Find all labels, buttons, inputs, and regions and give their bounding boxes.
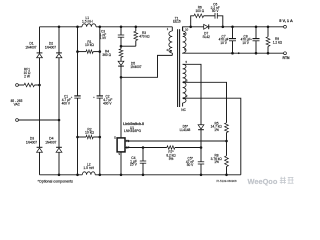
diode D6* LL4148	[180, 125, 204, 162]
resistor R9 1.2 kOhm	[266, 26, 283, 55]
wire FB winding tap 2 to bottom rail	[183, 97, 241, 175]
wire clamp join C3/R3	[120, 45, 136, 48]
svg-text:100 Ω: 100 Ω	[196, 9, 205, 13]
wire secondary pin 10 to output rail	[183, 26, 205, 32]
capacitor C3 1 nF 1 kV	[100, 27, 124, 46]
svg-text:RTN: RTN	[283, 56, 291, 60]
wire AC N to D2/D4 column	[18, 119, 60, 122]
svg-text:10 V: 10 V	[220, 41, 227, 45]
svg-text:LL4148: LL4148	[180, 128, 191, 132]
resistor R4 360 Ohm	[102, 46, 122, 57]
svg-text:2 W: 2 W	[24, 75, 30, 79]
node junction dots on bottom rail	[58, 174, 228, 177]
svg-text:NC: NC	[181, 108, 186, 112]
snubber resistor R6 100 Ohm	[191, 6, 215, 27]
diode D4 1N4007	[45, 120, 62, 175]
watermark WeeQoo	[248, 177, 294, 186]
label 85-265 VAC	[11, 99, 23, 107]
resistor R8 3.76 kOhm 1%	[211, 153, 229, 174]
svg-text:50 V: 50 V	[212, 9, 219, 13]
svg-text:1.2 kΩ: 1.2 kΩ	[273, 40, 283, 44]
node output terminal RTN	[283, 52, 291, 60]
svg-text:1N4007: 1N4007	[130, 65, 141, 69]
node AC input terminal L	[16, 84, 19, 87]
wire FB winding tap 3 to R5	[183, 81, 227, 123]
capacitor C8 470 uF 10 V	[241, 26, 260, 55]
wire primary return bottom rail	[40, 174, 241, 176]
wire drain to primary pin 4	[121, 55, 172, 77]
svg-text:400 V: 400 V	[62, 102, 71, 106]
transformer T1 EF16 core	[173, 16, 181, 107]
node junction dots on B+ rail	[58, 26, 137, 29]
capacitor C1 4.7 uF 400 V	[62, 27, 81, 175]
op-amp U1 LNK616PG LinkSwitch-II	[114, 122, 144, 156]
diode D3 1N4007	[26, 85, 42, 175]
resistor R7* 8.2 kOhm 5%	[166, 146, 202, 161]
svg-text:50 V: 50 V	[187, 163, 194, 167]
svg-text:10: 10	[185, 27, 189, 31]
wire drain column to U1	[120, 77, 122, 138]
transformer T1 secondary winding pins 10-6	[183, 27, 189, 53]
svg-text:1N4007: 1N4007	[26, 140, 37, 144]
resistor R1 10 kOhm (parallel L1)	[76, 40, 101, 54]
svg-text:10 V: 10 V	[242, 41, 249, 45]
snubber capacitor C6 2.2 nF 50 V	[211, 2, 224, 28]
svg-text:PI-5139-060908: PI-5139-060908	[216, 179, 237, 183]
svg-text:470 kΩ: 470 kΩ	[139, 35, 150, 39]
wire U1 source to bottom rail	[120, 152, 122, 175]
wire B+ top rail	[40, 26, 173, 28]
svg-text:WeeQoo: WeeQoo	[248, 177, 278, 186]
svg-text:360 Ω: 360 Ω	[102, 53, 111, 57]
svg-text:1%: 1%	[214, 128, 219, 132]
inductor L2 1.5 mH	[82, 163, 95, 175]
resistor R5 14.7 kOhm 1%	[211, 121, 229, 156]
svg-text:1.5 mH: 1.5 mH	[83, 166, 94, 170]
svg-text:5 V, 1 A: 5 V, 1 A	[279, 18, 293, 23]
svg-text:5%: 5%	[169, 157, 174, 161]
svg-text:400 V: 400 V	[103, 102, 112, 106]
wire FB winding pin 5 to D6	[183, 64, 201, 125]
svg-text:S: S	[118, 152, 120, 156]
capacitor C4 1 uF 25 V	[130, 146, 146, 175]
svg-text:1N4007: 1N4007	[45, 140, 56, 144]
transformer T1 feedback winding pins 5-3-2-NC	[181, 60, 188, 112]
capacitor C2 4.7 uF 400 V	[93, 27, 112, 175]
wire FB pin to divider	[125, 140, 228, 143]
svg-text:EE16: EE16	[173, 20, 181, 24]
diode D5 1N4007	[118, 57, 142, 77]
svg-text:25 V: 25 V	[130, 163, 138, 167]
svg-text:SL42: SL42	[202, 35, 210, 39]
svg-text:1 kV: 1 kV	[100, 36, 107, 40]
transformer T1 primary winding pins 1-4	[166, 27, 172, 56]
svg-text:VAC: VAC	[14, 102, 21, 106]
resistor R3 470 kOhm	[134, 27, 150, 46]
node AC input terminal N	[16, 119, 19, 122]
svg-text:LNK616PG: LNK616PG	[124, 129, 142, 133]
note optional components	[38, 180, 74, 184]
svg-text:*Optional components: *Optional components	[38, 180, 74, 184]
node output terminal 5V	[279, 18, 293, 28]
svg-text:1.5 mH: 1.5 mH	[82, 19, 93, 23]
node drain junction	[120, 76, 123, 79]
diode D7 SL42	[202, 24, 283, 38]
resistor RF1 10 Ohm 2 W fusible	[18, 68, 39, 87]
inductor L1 1.5 mH	[82, 16, 96, 27]
note schematic number PI-5139	[216, 179, 237, 183]
svg-text:1%: 1%	[214, 160, 219, 164]
capacitor C5* 47 nF 50 V	[186, 156, 204, 174]
svg-text:1N4007: 1N4007	[25, 45, 36, 49]
svg-text:10 kΩ: 10 kΩ	[85, 43, 94, 47]
resistor R2 10 kOhm (parallel L2)	[76, 127, 101, 139]
svg-text:1N4007: 1N4007	[45, 45, 56, 49]
wire BP pin	[125, 147, 167, 149]
svg-text:D: D	[114, 135, 116, 139]
diode D1 1N4007	[25, 27, 42, 85]
node RF1 to bridge junction	[38, 84, 41, 87]
capacitor C7 470 uF 10 V	[219, 26, 236, 55]
svg-text:10 kΩ: 10 kΩ	[85, 131, 94, 135]
wire RTN rail	[183, 52, 284, 54]
diode D2 1N4007	[45, 27, 62, 120]
